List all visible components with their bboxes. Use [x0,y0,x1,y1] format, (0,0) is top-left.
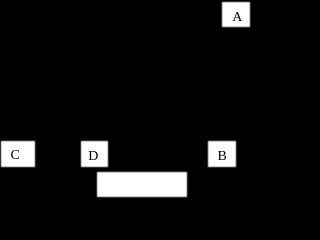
label box C [1,141,34,166]
letter C [11,149,20,163]
letter D [88,150,98,164]
letter B [218,150,227,164]
letter A [232,11,242,25]
label box A [222,2,250,27]
label box D [81,141,108,166]
label box B [208,141,236,166]
empty answer rectangle [97,172,187,197]
